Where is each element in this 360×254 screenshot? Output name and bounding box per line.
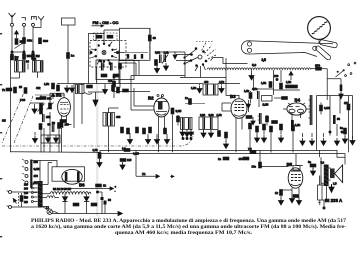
- svg-text:1,5k: 1,5k: [261, 81, 267, 85]
- osc coil pair T6: [181, 118, 193, 130]
- osc coil L5b: [48, 122, 54, 132]
- output transformer core: [324, 165, 329, 187]
- components right of B3: [244, 87, 258, 98]
- tuning cap CV1: [20, 98, 45, 114]
- wire bump line left: [42, 192, 102, 194]
- trimmer arrow C1: [15, 31, 19, 39]
- svg-text:30k: 30k: [47, 97, 52, 101]
- mech dashdot diagonal 2: [14, 96, 33, 143]
- svg-text:B6: B6: [79, 182, 85, 187]
- big down arrow under OPT: [329, 184, 334, 193]
- cap bar: [333, 115, 340, 124]
- grounds right column: [334, 124, 339, 146]
- svg-text:0,82: 0,82: [209, 113, 215, 117]
- gnd left of CV1: [32, 104, 37, 114]
- svg-text:3,8: 3,8: [33, 57, 37, 61]
- svg-text:B4: B4: [295, 98, 301, 103]
- capacitor C4: [39, 38, 49, 44]
- wire T1 down: [11, 72, 20, 78]
- capacitor C3: [23, 38, 33, 44]
- svg-text:quenza AM 460 kc/s; media freq: quenza AM 460 kc/s; media frequenza FM 1…: [115, 230, 253, 236]
- dial scale capsule: [241, 41, 333, 57]
- chassis bus lower: [100, 154, 345, 165]
- dial lamp L1: [43, 206, 59, 215]
- tube B1: [56, 92, 70, 121]
- ground B5 cathode: [278, 196, 283, 205]
- bias resistor + gnd at x95: [93, 148, 103, 167]
- interlock dashed: [18, 193, 20, 206]
- svg-text:5,6: 5,6: [252, 63, 257, 67]
- grid cap feed B1: [50, 93, 64, 95]
- IF can T3: [103, 113, 121, 127]
- bus y83: [57, 83, 240, 85]
- cap across mains: [20, 193, 27, 207]
- label 8,2: [122, 147, 130, 152]
- FM dipole antenna: [38, 16, 44, 27]
- svg-text:PHILIPS RADIO - Mod. BE 233 A.: PHILIPS RADIO - Mod. BE 233 A. Apparecch…: [31, 217, 346, 224]
- small caps on bus: [73, 203, 97, 206]
- antenna terminal 2 hook: [22, 18, 26, 27]
- cap 1n above T5: [185, 96, 205, 104]
- svg-text:a 1620 kc/s), una gamma onde c: a 1620 kc/s), una gamma onde corte AM (d…: [31, 223, 346, 230]
- resistor 390: [36, 97, 52, 101]
- svg-text:0,1M: 0,1M: [34, 167, 40, 171]
- svg-text:1,3k: 1,3k: [295, 123, 301, 127]
- FM unit box: [120, 28, 151, 60]
- diode arrow B3 right: [247, 100, 251, 112]
- ground arrows mid: [64, 85, 69, 93]
- svg-text:1,5k: 1,5k: [44, 82, 50, 86]
- wires IF can: [109, 108, 119, 152]
- svg-text:FM - OM - OC: FM - OM - OC: [93, 20, 119, 25]
- filter choke bumps: [50, 192, 91, 194]
- svg-text:41k: 41k: [36, 86, 41, 90]
- svg-text:460: 460: [116, 115, 121, 119]
- coil L4 with arrow: [162, 51, 169, 64]
- tuning shaft capsule tilted: [316, 46, 331, 60]
- B3 pin wires: [236, 124, 242, 153]
- cap 0,1M above bus: [133, 152, 139, 156]
- wires to B5: [260, 150, 296, 166]
- diode D1: [62, 194, 67, 214]
- wire antenna3 down: [32, 26, 34, 55]
- svg-text:4,7k: 4,7k: [219, 80, 225, 84]
- svg-text:B3: B3: [230, 94, 236, 99]
- speaker: [330, 165, 343, 186]
- dial drum circle: [308, 17, 331, 40]
- svg-text:1n: 1n: [71, 54, 75, 58]
- svg-text:160: 160: [24, 187, 29, 190]
- resistor under B2 right: [171, 108, 181, 114]
- svg-text:15k: 15k: [27, 54, 32, 58]
- tube B4: [287, 98, 306, 116]
- B2 pin wires down: [159, 108, 173, 153]
- svg-text:1,5k: 1,5k: [93, 148, 99, 152]
- svg-text:B5: B5: [287, 162, 293, 167]
- wire switch down + comp: [339, 79, 343, 99]
- extra small parts right of B3: [246, 115, 277, 126]
- svg-text:460: 460: [204, 80, 209, 84]
- tube B2: [148, 95, 169, 122]
- line-antenna box: [62, 18, 76, 84]
- dots right: [329, 131, 331, 133]
- gang trimmer box: [41, 135, 60, 143]
- wire down from box A: [149, 28, 151, 59]
- wire y91.5: [112, 91, 150, 93]
- svg-text:BI 233 A: BI 233 A: [325, 198, 343, 203]
- mech dashdot diagonal 1: [2, 88, 26, 143]
- resistor cluster A: [2, 85, 27, 93]
- switch stem wires left: [119, 50, 139, 84]
- svg-text:1M: 1M: [344, 101, 348, 105]
- IF transformer T5: [199, 113, 222, 130]
- grounds B5 pins: [289, 195, 294, 204]
- svg-text:125: 125: [127, 158, 132, 162]
- wire box stem down: [97, 67, 121, 84]
- svg-text:220: 220: [24, 183, 29, 186]
- ground arrows under B2: [127, 133, 132, 144]
- power transformer core: [38, 181, 43, 208]
- gang ground arrow: [32, 132, 37, 143]
- resistor right2: [344, 101, 350, 110]
- resistor R3: [32, 54, 41, 60]
- svg-text:1,2k: 1,2k: [286, 80, 292, 84]
- ratio coil L7: [258, 113, 262, 124]
- arrow into mixer: [173, 52, 177, 60]
- svg-text:1M: 1M: [2, 119, 6, 123]
- box at B5 top: [293, 166, 300, 171]
- svg-text:B1 B2 B3 B4 B5: B1 B2 B3 B4 B5: [53, 188, 72, 191]
- capacitor C2: [15, 39, 25, 45]
- arrow near B1 grid: [51, 94, 55, 100]
- svg-text:110: 110: [24, 201, 29, 204]
- under-B3 component row: [249, 123, 295, 132]
- svg-text:470: 470: [34, 174, 39, 178]
- svg-text:0,1M: 0,1M: [324, 106, 330, 110]
- svg-text:1n: 1n: [185, 96, 188, 100]
- trimmer sub-box dashed: [94, 33, 118, 41]
- svg-text:1,5k: 1,5k: [217, 113, 223, 117]
- capacitor C5 on box stem: [67, 53, 75, 59]
- wires upper mid: [131, 58, 226, 96]
- rotary wafer S1: [90, 40, 125, 67]
- svg-text:500: 500: [43, 39, 48, 43]
- svg-text:8,2: 8,2: [122, 147, 126, 151]
- wires above wafer: [96, 30, 120, 43]
- coil L6 top: [258, 91, 260, 99]
- wire wafer2 right step: [211, 58, 248, 64]
- svg-text:3,5: 3,5: [262, 58, 267, 62]
- down arrow x105: [102, 84, 107, 94]
- page tick marks: [0, 33, 2, 237]
- svg-text:5,6k: 5,6k: [155, 51, 161, 55]
- cathode resistor 1k: [275, 189, 292, 195]
- cap inside box: [119, 63, 122, 69]
- cap mid: [87, 85, 93, 88]
- heater pins B2: [157, 95, 164, 97]
- cap C8: [155, 60, 158, 66]
- wires to output area: [319, 150, 321, 157]
- caps below bus: [218, 157, 249, 161]
- parts x112-118: [112, 85, 129, 93]
- drum stem: [318, 39, 320, 43]
- small box C: [155, 52, 185, 78]
- drum hatch band: [312, 22, 328, 34]
- resistor 0,1M: [320, 103, 330, 115]
- antenna coil T1: [15, 57, 26, 72]
- verticals dropping from bus y83.5: [74, 84, 82, 129]
- comp + gnd under bus left: [120, 158, 132, 170]
- page fold light line: [96, 34, 98, 216]
- output arrow Z1: [136, 150, 174, 178]
- tube B3: [230, 94, 247, 123]
- resistor 150 on heater wire: [311, 63, 327, 70]
- resistor under B2 right2: [177, 115, 180, 126]
- wire antenna2 down: [23, 26, 25, 55]
- svg-text:150: 150: [315, 63, 320, 67]
- antenna A1: [9, 13, 16, 27]
- junction dots under T6: [182, 137, 192, 139]
- antenna terminal 3 hook: [32, 17, 37, 27]
- svg-text:3-30: 3-30: [20, 98, 26, 102]
- wire x120 down: [119, 80, 121, 88]
- electrolytic C50: [101, 192, 112, 214]
- grounds beside T4: [197, 84, 202, 93]
- parts under switch stem: [108, 76, 115, 98]
- svg-text:+: +: [115, 185, 117, 189]
- wires under B3: [250, 130, 293, 153]
- svg-text:7,5: 7,5: [248, 147, 252, 151]
- shield box B: [96, 60, 134, 80]
- wire y103: [30, 102, 44, 104]
- cap 10n: [252, 162, 262, 168]
- components under B1 pins: [60, 122, 71, 153]
- ground arrow FM1: [154, 66, 159, 74]
- arrows row left of B3: [180, 129, 194, 137]
- cap + gnd left of OPT: [308, 160, 316, 176]
- switch assembly outer frame: [89, 34, 105, 84]
- resistor R1: [11, 54, 20, 60]
- svg-text:0,82: 0,82: [200, 113, 206, 117]
- wires left mid: [41, 95, 59, 152]
- B4 wires: [283, 102, 310, 123]
- svg-text:B2: B2: [148, 96, 154, 101]
- mains plug terminals: [7, 191, 12, 209]
- dashed shield box switch S1: [90, 41, 126, 68]
- svg-text:-: -: [115, 189, 116, 193]
- under-B2 component row: [121, 127, 167, 134]
- wire phono to B6: [32, 161, 57, 182]
- rect frame B6: [52, 167, 85, 181]
- resistor R2: [23, 54, 32, 60]
- coil L1 inside box: [99, 59, 103, 71]
- label FM-OM-OC: [92, 20, 119, 27]
- ratio det coil: [309, 95, 312, 125]
- small parts bottom of box: [101, 74, 119, 77]
- svg-text:1,2k: 1,2k: [164, 51, 170, 55]
- arc wire: [84, 92, 92, 94]
- coil L3: [155, 51, 161, 64]
- arrow at L7: [251, 117, 255, 125]
- antenna coil T2: [33, 57, 44, 72]
- node row wire: [12, 51, 24, 53]
- svg-text:100: 100: [274, 74, 279, 78]
- svg-text:30k: 30k: [27, 39, 32, 43]
- T wire with arrow: [88, 92, 105, 106]
- IF transformer T4: [203, 80, 225, 95]
- heater winding bumps: [43, 196, 59, 198]
- tuning cap CV2: [47, 103, 54, 110]
- voltage selector taps: [24, 183, 38, 204]
- mains switch S3: [336, 62, 356, 77]
- svg-text:390: 390: [36, 97, 41, 101]
- B3 left wires: [222, 96, 239, 112]
- label 7,5: [248, 147, 256, 153]
- tube B5: [287, 162, 303, 195]
- svg-text:140: 140: [24, 192, 29, 195]
- mains arrow: [13, 199, 16, 204]
- junction dots antenna row: [11, 51, 13, 53]
- ground under heater line: [249, 70, 254, 81]
- rotary wafer S2: [176, 42, 216, 72]
- svg-text:40: 40: [153, 36, 157, 40]
- diode D2: [84, 194, 89, 214]
- svg-text:1,5: 1,5: [333, 182, 337, 186]
- svg-text:0,1M: 0,1M: [176, 109, 182, 113]
- parts inside FM box: [124, 53, 148, 60]
- tube B6: [62, 169, 85, 187]
- ground arrows under B3: [254, 132, 259, 143]
- cap C10: [39, 124, 42, 130]
- wire T2 down: [37, 72, 39, 78]
- phono terminal strip: [22, 159, 39, 188]
- long heater coil line: [207, 68, 311, 70]
- components under B1: [52, 120, 66, 129]
- osc coil L5: [43, 114, 51, 122]
- svg-text:1M: 1M: [36, 54, 41, 58]
- idler circle: [313, 46, 317, 50]
- cap left of B4: [274, 97, 287, 100]
- svg-text:5n: 5n: [308, 160, 311, 164]
- +- output arrow: [62, 185, 117, 194]
- svg-text:Z1: Z1: [142, 172, 146, 176]
- trimmer tick: [26, 60, 29, 70]
- svg-text:1n: 1n: [218, 157, 221, 161]
- volume control cluster: [261, 70, 300, 95]
- svg-text:470: 470: [108, 79, 113, 83]
- mech dashdot horizontal: [2, 133, 194, 146]
- coil box mid: [76, 85, 85, 94]
- vertical rails right: [317, 96, 353, 153]
- wires from plug: [12, 192, 38, 207]
- left long wire: [11, 56, 12, 152]
- wire wafer2 stem: [200, 66, 202, 78]
- svg-text:10n: 10n: [252, 165, 257, 169]
- capacitor C7: [148, 35, 156, 41]
- svg-text:4,5: 4,5: [15, 57, 19, 61]
- ground arrow FM2: [163, 63, 168, 71]
- transformer secondary taps: [43, 163, 53, 207]
- cap 5n: [340, 126, 346, 134]
- svg-text:470: 470: [239, 157, 244, 161]
- svg-text:1,5k: 1,5k: [244, 89, 250, 93]
- svg-text:1,3k: 1,3k: [191, 86, 197, 90]
- wire heater corner down: [327, 69, 341, 100]
- wires into B2: [131, 76, 154, 111]
- switch arm S1a: [15, 44, 23, 49]
- OPT wires: [321, 157, 331, 183]
- svg-text:125: 125: [24, 196, 29, 199]
- wires right of B3: [251, 77, 274, 107]
- coil L2 inside box: [111, 63, 113, 71]
- chassis bus upper: [11, 150, 346, 157]
- dark bar 1,3k: [291, 120, 301, 130]
- small rect box det: [262, 96, 273, 102]
- wire antenna1 down: [11, 26, 13, 56]
- resistor right of B6: [96, 184, 107, 188]
- svg-text:2,2M: 2,2M: [263, 103, 269, 107]
- bottom bus with arrow: [52, 211, 123, 215]
- line across right: [317, 95, 353, 97]
- bottom cluster under coils: [36, 82, 59, 91]
- box below OPT: [318, 176, 327, 210]
- pointer capsule right: [320, 40, 337, 48]
- svg-text:5n: 5n: [340, 126, 343, 130]
- wire link to 4th input: [34, 27, 42, 29]
